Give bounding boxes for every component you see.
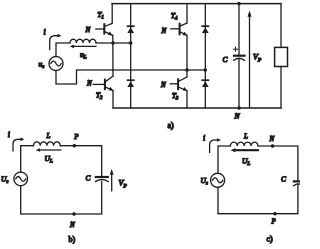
wire left branch (b) <box>21 146 34 172</box>
arrow V_P (b) <box>110 169 114 191</box>
wire T4 collector to top rail <box>186 4 188 23</box>
label + (C a) <box>233 47 237 51</box>
node D2-D4 midpoint <box>204 68 207 71</box>
diode D4 <box>202 70 209 108</box>
diode D3 <box>127 43 134 108</box>
voltage source U_s (b) <box>14 172 28 186</box>
wire T1 emitter to node / T2 collector <box>112 35 114 76</box>
node N (b) <box>72 212 75 215</box>
svg-text:N: N <box>86 80 92 88</box>
svg-text:i: i <box>44 28 46 37</box>
node P (b) <box>73 144 76 147</box>
transistor T4 <box>171 23 188 36</box>
svg-text:i: i <box>203 134 205 143</box>
wire T2 emitter to bottom rail <box>112 91 114 108</box>
transistor T1 <box>96 23 113 35</box>
capacitor C (a) <box>234 4 245 108</box>
wire source bottom step to right leg midpoint (a) <box>56 70 205 84</box>
svg-text:L: L <box>46 132 51 140</box>
node left leg midpoint <box>111 41 114 44</box>
svg-text:C: C <box>281 175 287 184</box>
inductor L (c) <box>230 142 258 146</box>
svg-text:c): c) <box>267 235 274 244</box>
load resistor (a) <box>275 4 288 108</box>
voltage source U_s (c) <box>211 173 225 187</box>
svg-text:UL: UL <box>242 157 250 168</box>
wire top DC rail <box>112 3 281 5</box>
svg-text:b): b) <box>69 235 76 244</box>
wire source bottom (b) <box>21 182 102 215</box>
svg-text:T1: T1 <box>98 11 104 21</box>
svg-text:VP: VP <box>119 179 128 190</box>
voltage source u_s (a) <box>49 57 63 71</box>
transistor T3 <box>170 77 187 91</box>
arrow u_L (a) <box>73 45 97 47</box>
capacitor C (b) <box>95 177 108 182</box>
svg-text:Us: Us <box>201 176 208 187</box>
svg-text:a): a) <box>168 121 175 130</box>
svg-text:UL: UL <box>45 154 53 165</box>
wire source bottom (c) <box>218 185 298 214</box>
svg-text:N: N <box>234 112 241 121</box>
current arrow i (a) <box>50 36 58 50</box>
arrow U_L (c) <box>235 149 259 151</box>
inductor L (b) <box>34 142 61 146</box>
wire source top to inductor (a) <box>56 43 70 57</box>
wire T4 emitter to node / T3 collector <box>186 35 188 77</box>
node D1-D3 midpoint <box>129 41 132 44</box>
wire inductor to corner (c) <box>258 146 298 180</box>
node capacitor bottom N <box>237 106 240 109</box>
svg-text:N: N <box>269 135 275 143</box>
svg-text:T3: T3 <box>172 92 179 102</box>
arrow V_P (a) <box>248 11 252 109</box>
svg-text:N: N <box>160 81 166 89</box>
svg-text:P: P <box>271 218 277 226</box>
svg-text:T2: T2 <box>96 92 103 102</box>
svg-text:VP: VP <box>253 53 262 64</box>
svg-text:N: N <box>85 26 91 34</box>
diode D2 <box>202 4 209 70</box>
svg-text:C: C <box>86 174 92 183</box>
svg-text:T4: T4 <box>171 12 178 22</box>
wire left branch (c) <box>218 146 230 173</box>
wire T3 emitter to bottom rail <box>186 91 188 108</box>
svg-text:N: N <box>161 27 167 35</box>
node P (c) <box>273 212 276 215</box>
arrow U_L (b) <box>39 149 61 151</box>
wire inductor to corner (b) <box>60 146 101 176</box>
transistor T2 <box>93 76 113 91</box>
wire inductor to leg midpoints (a) <box>96 42 131 44</box>
current arrow i (b) <box>13 139 21 151</box>
capacitor C (c) <box>294 181 304 185</box>
node right leg midpoint <box>185 68 188 71</box>
svg-text:C: C <box>223 55 229 64</box>
svg-text:L: L <box>243 133 248 141</box>
wire T1 collector to top rail <box>111 4 113 24</box>
svg-text:us: us <box>39 60 45 71</box>
svg-text:P: P <box>73 133 79 141</box>
svg-text:i: i <box>8 130 10 139</box>
wire bottom DC rail <box>113 107 281 109</box>
inductor L (a) <box>70 39 96 43</box>
svg-text:N: N <box>69 221 75 229</box>
node N (c) <box>271 144 274 147</box>
diode D1 <box>127 4 134 43</box>
current arrow i (c) <box>210 140 218 153</box>
svg-text:uL: uL <box>80 50 87 61</box>
svg-text:Us: Us <box>1 175 8 186</box>
node capacitor top <box>237 2 240 5</box>
